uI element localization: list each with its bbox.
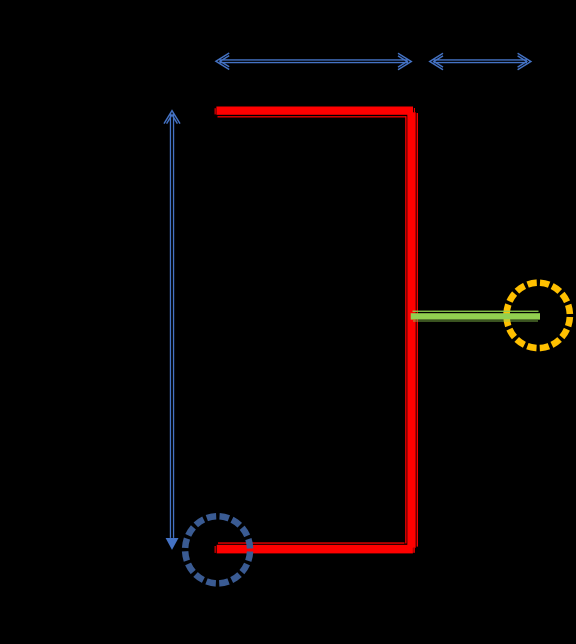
red channel section outline [215,107,418,554]
green thin line below [413,321,538,322]
green thin line above [413,311,539,312]
web bottom end tick [413,548,415,553]
vertical shaft double line [169,114,171,538]
top open chevron arrowhead [164,111,180,124]
left chevron head [430,53,443,70]
top flange thick bar [216,107,413,115]
orange dashed detail circle [507,283,570,348]
web top end tick [414,108,415,112]
shaft double line [434,59,528,61]
shaft double line [220,59,409,61]
vertical dimension arrow (height) [164,111,180,550]
bottom flange thick bar [217,545,413,554]
horizontal dimension arrow 2 (small width) [430,53,531,70]
web thick bar [407,112,415,548]
bottom filled triangle arrowhead [166,538,179,550]
right chevron head [398,53,411,70]
bottom flange start tick [215,546,216,553]
blue dashed detail circle (over red) [185,516,250,583]
green thick line [411,313,540,319]
web thin line right [417,113,418,547]
right chevron head [518,53,531,70]
bottom flange thin companion line [218,542,405,543]
horizontal dimension arrow 1 (width) [216,53,411,70]
web thin line left [405,116,406,543]
left chevron head [216,53,229,70]
top flange thin companion line [218,116,406,117]
green pointer line (thick-thin compound) [411,311,540,322]
top flange start tick [215,108,216,114]
